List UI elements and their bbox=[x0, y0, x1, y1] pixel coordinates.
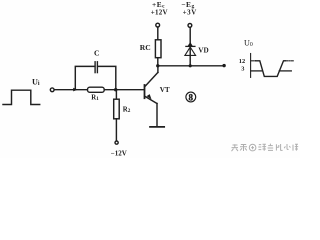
svg-text:+3V: +3V bbox=[183, 8, 197, 16]
svg-text:+12V: +12V bbox=[151, 8, 168, 16]
svg-text:Ui: Ui bbox=[32, 77, 40, 87]
svg-text:U0: U0 bbox=[244, 38, 253, 48]
svg-text:C: C bbox=[94, 49, 99, 58]
svg-text:8: 8 bbox=[189, 92, 194, 102]
svg-text:R1: R1 bbox=[91, 95, 99, 103]
svg-text:RC: RC bbox=[140, 43, 151, 52]
svg-text:R2: R2 bbox=[123, 106, 131, 114]
svg-text:VT: VT bbox=[160, 86, 170, 94]
svg-text:VD: VD bbox=[198, 46, 208, 54]
svg-text:3: 3 bbox=[241, 66, 244, 73]
svg-text:−12V: −12V bbox=[111, 150, 127, 158]
svg-text:12: 12 bbox=[239, 58, 245, 65]
